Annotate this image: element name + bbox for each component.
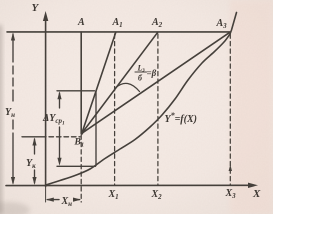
- point B dot: [80, 132, 83, 135]
- left edge smudge: [0, 25, 2, 214]
- delta segment chord-to-curve x=96: [95, 91, 97, 166]
- dYsr dimension line x=59.5: [59, 93, 61, 162]
- Xn dimension arrow-line left part: [48, 199, 60, 201]
- angle arc between chords: [116, 83, 140, 91]
- Yk dim arrow down: [32, 177, 36, 185]
- chord B-A2: [82, 32, 158, 133]
- paper background: [0, 0, 273, 214]
- Xn dim arrow right: [73, 198, 81, 202]
- X axis: [6, 184, 252, 186]
- B level dashed horizontal: [22, 136, 46, 138]
- X3 small up arrow near axis: [229, 165, 232, 172]
- Y axis: [45, 16, 47, 187]
- X2 dashed vertical: [157, 34, 159, 185]
- svg-text:Y*=f(X): Y*=f(X): [165, 111, 197, 125]
- Yn dimension line x=13: [12, 34, 14, 183]
- Yk dim arrow up: [32, 138, 36, 146]
- Y axis extension below origin: [45, 187, 47, 203]
- svg-text:A: A: [77, 17, 85, 28]
- chord B-A3: [82, 32, 230, 133]
- dashed vertical Xn below B: [80, 135, 82, 202]
- Xn dimension arrow-line right part: [77, 199, 80, 201]
- curve Y*=f(X): [46, 13, 237, 186]
- paper pink tint right side: [230, 0, 273, 214]
- svg-text:X: X: [252, 188, 261, 200]
- fraction bar of angle label: [135, 71, 147, 73]
- Yk dimension line x=34.5: [34, 139, 36, 183]
- Y axis arrowhead: [43, 11, 48, 21]
- Xn dim arrow left: [46, 198, 54, 202]
- X3 dashed vertical: [229, 34, 231, 185]
- Yn dim arrow up: [11, 33, 15, 41]
- svg-text:=β: =β: [147, 68, 157, 78]
- top level line Yn: [7, 31, 231, 33]
- paper grain noise: [0, 0, 273, 214]
- vertical line A above B: [80, 32, 82, 133]
- chord B-A1: [82, 32, 116, 133]
- dYsr dim arrow down: [57, 158, 61, 166]
- Yn dim arrow down: [11, 177, 15, 185]
- bottom-left corner smudge: [0, 202, 30, 218]
- dYsr top bracket line: [57, 90, 95, 92]
- dYsr dim arrow up: [57, 91, 61, 99]
- X1 dashed vertical: [114, 34, 116, 185]
- X axis arrowhead: [248, 183, 258, 188]
- dYsr bottom bracket line: [57, 165, 96, 167]
